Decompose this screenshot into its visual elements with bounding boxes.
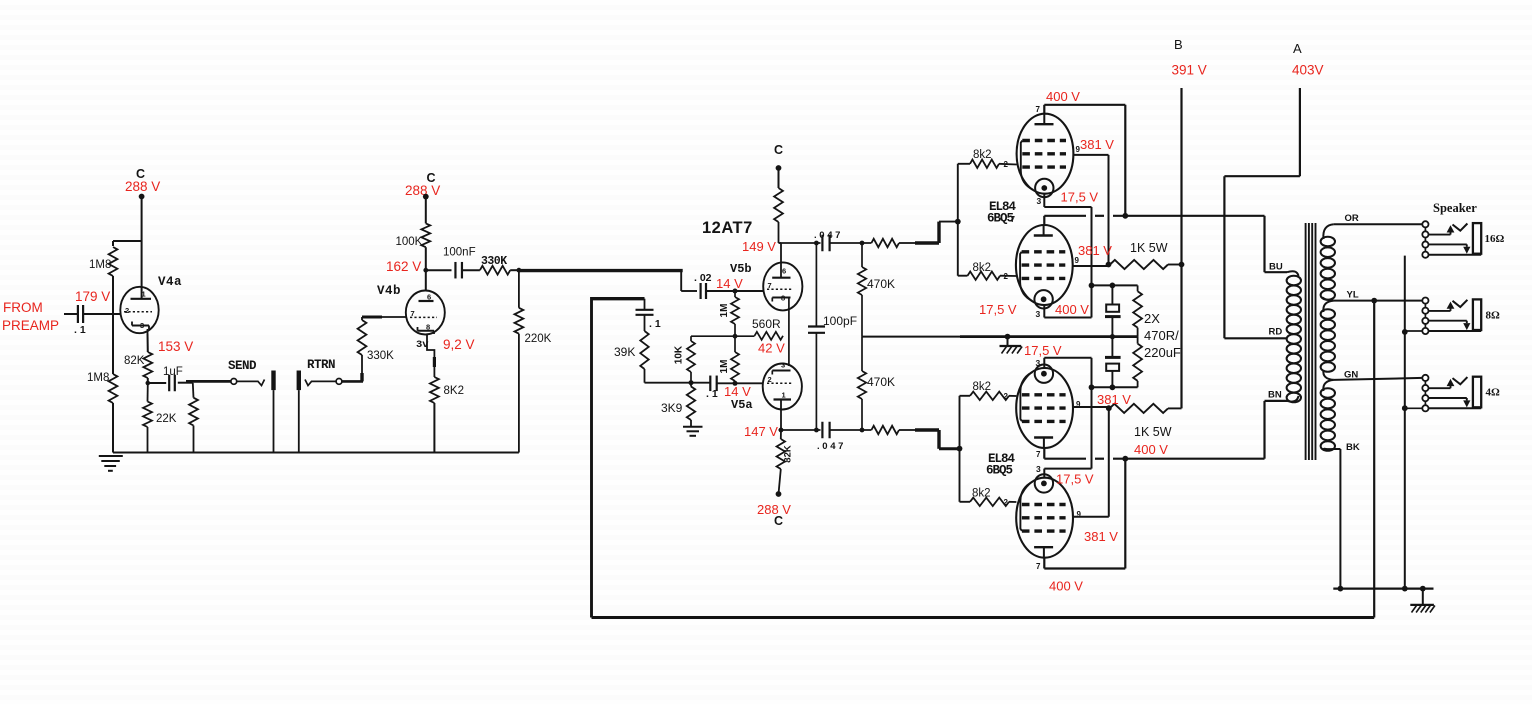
resistor 8k2 V2 (968, 262, 1017, 280)
resistor 39K feedback (614, 331, 649, 383)
svg-text:100K: 100K (396, 236, 423, 248)
capacitor 1uF (163, 366, 183, 391)
wire RTRN up to 330K (360, 355, 363, 381)
resistor 470K upper grid leak (858, 243, 895, 337)
svg-text:1M: 1M (719, 360, 730, 374)
capacitor .1 input coupling (74, 305, 86, 336)
svg-text:3: 3 (1036, 358, 1041, 368)
supply C 288V for V4b (405, 171, 440, 200)
label V4b (377, 284, 401, 298)
svg-text:100pF: 100pF (823, 314, 857, 328)
wire ground bus middle (862, 334, 1138, 340)
supply C 288V for V4a (125, 167, 160, 199)
svg-text:1uF: 1uF (163, 366, 183, 378)
wire 100K to plate node (423, 247, 428, 291)
svg-text:3K9: 3K9 (661, 401, 683, 415)
label 3v pin (416, 339, 429, 351)
red label 400 V V1 plate (1046, 89, 1080, 104)
pentode EL84 V3 (flipped) (1016, 365, 1073, 449)
red label 147 V (744, 424, 778, 439)
svg-text:6BQ5: 6BQ5 (987, 212, 1014, 226)
svg-text:. 0 4 7: . 0 4 7 (817, 441, 843, 452)
resistor 330K grid V4b (358, 317, 395, 362)
svg-text:3: 3 (1036, 464, 1041, 474)
wire lower .047 to grid stopper (830, 428, 872, 433)
resistor V5b plate load (774, 188, 783, 243)
wire .047 to grid stopper (830, 241, 872, 246)
svg-text:8K2: 8K2 (444, 385, 464, 397)
red label 381 V V3 screen (1097, 392, 1131, 407)
svg-text:470K: 470K (867, 375, 895, 389)
resistor 3K9 (661, 383, 695, 427)
resistor 82K cathode V4a (124, 352, 152, 378)
capacitor .047 lower (817, 422, 843, 452)
svg-text:1: 1 (782, 391, 786, 400)
svg-text:470R/: 470R/ (1144, 328, 1179, 343)
wire V4a cathode (147, 334, 149, 353)
svg-text:7: 7 (1036, 450, 1041, 459)
svg-text:8Ω: 8Ω (1486, 310, 1501, 322)
label 12AT7 (702, 219, 753, 237)
red label 179 V (75, 289, 110, 304)
svg-text:6: 6 (427, 293, 431, 302)
wire screens upper pair (1073, 155, 1112, 268)
wire V5b cathode to 560R to V5a cathode (788, 298, 790, 367)
wire 82K to node (146, 378, 151, 385)
svg-text:381 V: 381 V (1080, 137, 1114, 152)
ground symbol right (1410, 589, 1435, 613)
wire speaker common (1402, 256, 1408, 592)
svg-text:391 V: 391 V (1172, 63, 1207, 78)
red label 17,5 V V4 cathode (1056, 472, 1094, 487)
svg-text:PREAMP: PREAMP (2, 318, 59, 333)
svg-text:381 V: 381 V (1097, 392, 1131, 407)
resistor 82K tail V5a (777, 430, 794, 494)
svg-text:V4a: V4a (158, 275, 182, 289)
svg-text:400 V: 400 V (1049, 579, 1083, 594)
resistor 100K plate V4b (396, 223, 431, 248)
label YL (1347, 290, 1359, 301)
svg-text:6: 6 (782, 267, 786, 276)
jack speaker 16 ohm (1422, 221, 1481, 258)
svg-text:8k2: 8k2 (973, 381, 992, 393)
resistor grid stopper lower (871, 426, 915, 434)
svg-text:. 1: . 1 (706, 388, 718, 400)
capacitor .1 at V5a grid (706, 376, 718, 400)
red label 14 V (V5a grid) (724, 384, 751, 399)
svg-text:BK: BK (1346, 442, 1360, 453)
label V4a (158, 275, 182, 289)
wire node to 1uF (148, 382, 166, 384)
resistor 8k2 V1 (970, 149, 1017, 168)
red label 17,5 V V1 cathode (1061, 190, 1099, 205)
wire V4a plate supply (141, 197, 143, 289)
svg-text:7: 7 (1036, 105, 1041, 114)
svg-text:C: C (774, 514, 783, 528)
label Speaker (1433, 201, 1477, 215)
jack RTRN (297, 371, 363, 453)
svg-text:288 V: 288 V (125, 179, 160, 194)
svg-text:8: 8 (426, 323, 430, 332)
supply C 288V bottom (757, 491, 791, 528)
svg-text:BN: BN (1268, 390, 1282, 401)
svg-text:14 V: 14 V (716, 276, 743, 291)
resistor 8K2 cathode V4b (430, 377, 464, 403)
resistor 470R lower (1133, 337, 1142, 388)
wire 330K to junction (510, 268, 521, 273)
red label 17,5 V V3 cathode (1024, 343, 1062, 358)
red label 17,5 V V2 cathode (979, 302, 1017, 317)
red label 162 V (386, 259, 421, 274)
label B (1174, 37, 1183, 52)
supply C at V5b plate resistor (774, 143, 783, 171)
red label FROM PREAMP (input) (2, 300, 59, 333)
triode V4b (406, 291, 445, 335)
grid bus upper pair (958, 164, 970, 276)
svg-text:153 V: 153 V (158, 339, 193, 354)
ground rail left section (113, 452, 519, 454)
wire lower plate line to BN (1044, 401, 1287, 462)
svg-text:. 0 4 7: . 0 4 7 (814, 230, 840, 241)
red label 391 V (1172, 63, 1207, 78)
svg-text:2: 2 (768, 375, 772, 384)
svg-text:V4b: V4b (377, 284, 401, 298)
svg-text:V5a: V5a (731, 398, 753, 412)
transformer primary winding (1287, 271, 1301, 402)
wire upper cathode RC bus (1092, 283, 1138, 289)
wire 8K2 to rail (433, 403, 435, 453)
wire plate node to 100nF (426, 269, 452, 271)
label BU (1269, 262, 1283, 273)
wire junction to .1 cap (691, 382, 710, 384)
svg-text:FROM: FROM (3, 300, 43, 315)
svg-text:1K 5W: 1K 5W (1130, 241, 1168, 255)
ground symbol left rail (99, 456, 123, 471)
wire BK tap down to ground bus (1338, 449, 1344, 591)
svg-text:179 V: 179 V (75, 289, 110, 304)
svg-text:14 V: 14 V (724, 384, 751, 399)
svg-text:8k2: 8k2 (973, 262, 992, 274)
svg-text:3: 3 (781, 361, 785, 370)
wire A line 403V (1224, 88, 1300, 338)
wire screens lower pair (1073, 405, 1111, 516)
wire 1M8 divider bus (112, 241, 114, 453)
label SEND (228, 359, 257, 373)
pin labels EL84 V2 (1004, 215, 1080, 319)
wire feedback loop (592, 297, 1375, 618)
svg-text:147 V: 147 V (744, 424, 778, 439)
svg-text:SEND: SEND (228, 359, 257, 373)
svg-text:39K: 39K (614, 345, 635, 359)
red label 400 V V4 plate (1049, 579, 1083, 594)
resistor 560R (752, 317, 783, 340)
svg-text:330K: 330K (367, 350, 394, 362)
svg-text:1M8: 1M8 (87, 372, 109, 384)
resistor grid stopper upper (871, 239, 915, 247)
svg-text:22K: 22K (156, 413, 177, 425)
svg-text:42 V: 42 V (758, 341, 785, 356)
resistor 8k2 V4 (970, 488, 1016, 507)
pin labels EL84 V3 (1004, 358, 1082, 459)
resistor after 1uF to ground (189, 383, 198, 453)
capacitor .047 upper (814, 230, 840, 251)
wire input cap to V4a grid (84, 313, 121, 315)
wire 39K to junction (645, 380, 694, 385)
wire upper plate line to BU (1044, 216, 1287, 272)
label V5a (731, 398, 753, 412)
resistor 470K lower grid leak (858, 337, 895, 430)
wire thick drive to upper EL84 grids (915, 219, 961, 243)
transformer core (1306, 223, 1316, 460)
red label 149 V (742, 239, 776, 254)
svg-text:17,5 V: 17,5 V (1024, 343, 1062, 358)
node wire 42V rail (691, 334, 755, 339)
wire cathodes lower pair (1044, 358, 1091, 478)
svg-text:8: 8 (781, 294, 785, 303)
svg-text:. 02: . 02 (694, 272, 712, 284)
svg-text:400 V: 400 V (1055, 302, 1089, 317)
capacitor .02 (694, 272, 712, 299)
red label 153 V (158, 339, 193, 354)
svg-text:403V: 403V (1292, 63, 1324, 78)
wire GN tap to 4ohm jack (1334, 378, 1423, 380)
red label 400 V V2 plate (1055, 302, 1089, 317)
wire coupling down to .02 (681, 271, 697, 291)
svg-text:3: 3 (140, 321, 144, 330)
svg-text:B: B (1174, 37, 1183, 52)
svg-text:400 V: 400 V (1134, 442, 1168, 457)
svg-text:1: 1 (142, 290, 146, 299)
svg-text:381 V: 381 V (1084, 529, 1118, 544)
capacitor 220uF lower (1105, 337, 1121, 388)
svg-text:12AT7: 12AT7 (702, 219, 753, 237)
svg-text:2: 2 (125, 306, 129, 315)
red label 381 V V1 screen (1080, 137, 1114, 152)
resistor 1M8 upper (89, 247, 117, 276)
svg-text:A: A (1293, 41, 1302, 56)
capacitor .1 feedback (636, 299, 661, 331)
red label 400 V near lower 1K5W (1134, 442, 1168, 457)
wire V4b cathode to 8K2 (427, 334, 434, 377)
svg-text:C: C (774, 143, 783, 157)
label 2X 470R 220uF (1144, 311, 1181, 360)
svg-text:470K: 470K (867, 277, 895, 291)
wire 1uF to SEND jack (178, 381, 231, 382)
label 4 ohm (1486, 387, 1501, 399)
resistor 10K (674, 336, 696, 383)
ground symbol 3K9 (683, 427, 703, 436)
wire V5b plate line 149V (779, 241, 821, 263)
svg-text:220uF: 220uF (1144, 345, 1181, 360)
label 16 ohm (1485, 233, 1505, 245)
wire 1M8 tap to plate supply (113, 240, 142, 242)
svg-text:82K: 82K (124, 355, 145, 367)
wire right ground bus (1333, 586, 1433, 592)
wire V4 plate up to plate line (1044, 459, 1125, 569)
label GN (1344, 370, 1358, 381)
svg-text:. 1: . 1 (649, 318, 661, 330)
pentode EL84 V2 (1016, 225, 1073, 308)
resistor 1M lower (719, 336, 739, 383)
svg-text:. 1: . 1 (74, 324, 86, 336)
svg-text:17,5 V: 17,5 V (1056, 472, 1094, 487)
label A (1293, 41, 1302, 56)
triode V4a (120, 287, 158, 334)
wire V5a plate line 147V (779, 410, 821, 433)
triode V5b (763, 262, 802, 310)
red label 14 V (V5b grid) (716, 276, 743, 291)
svg-text:7: 7 (1036, 562, 1041, 571)
capacitor 100nF (443, 247, 476, 279)
svg-text:1K 5W: 1K 5W (1134, 425, 1172, 439)
svg-text:8k2: 8k2 (972, 488, 991, 500)
svg-text:7: 7 (768, 281, 772, 290)
red label 381 V V2 screen (1078, 243, 1112, 258)
resistor 8k2 V3 (970, 381, 1016, 400)
svg-text:400 V: 400 V (1046, 89, 1080, 104)
jack speaker 8 ohm (1405, 298, 1481, 335)
wire .1 to V5a grid (717, 381, 763, 386)
svg-text:100nF: 100nF (443, 247, 476, 259)
svg-text:16Ω: 16Ω (1485, 233, 1505, 245)
wire .02 to V5b grid (707, 289, 764, 294)
resistor 470R upper (1133, 285, 1142, 336)
wire YL tap to 8ohm jack (1334, 298, 1423, 304)
svg-text:381 V: 381 V (1078, 243, 1112, 258)
label EL84 6BQ5 lower (986, 452, 1016, 478)
wire B line 391V (1180, 88, 1182, 408)
resistor 1K 5W lower (1110, 404, 1182, 439)
wire supply to 100K (425, 197, 427, 224)
svg-text:6BQ5: 6BQ5 (986, 464, 1013, 478)
resistor 330K coupling (480, 255, 510, 275)
svg-text:OR: OR (1345, 213, 1359, 224)
svg-text:330K: 330K (481, 255, 507, 268)
pentode EL84 V1 (top) (1017, 114, 1074, 198)
wire thick coupling to phase splitter (519, 269, 683, 272)
svg-text:17,5 V: 17,5 V (979, 302, 1017, 317)
svg-text:162 V: 162 V (386, 259, 421, 274)
resistor 1M8 lower (87, 372, 117, 403)
svg-text:220K: 220K (525, 333, 552, 345)
wire thick drive to lower EL84 grids (915, 430, 962, 452)
pentode EL84 V4 (flipped) (1016, 474, 1073, 558)
resistor 220K (515, 270, 552, 452)
svg-text:288 V: 288 V (405, 183, 440, 198)
jack SEND (231, 371, 276, 453)
red label 381 V V4 screen (1084, 529, 1118, 544)
svg-text:8k2: 8k2 (973, 149, 992, 161)
label EL84 6BQ5 upper (987, 200, 1017, 226)
svg-text:4Ω: 4Ω (1486, 387, 1501, 399)
label OR (1345, 213, 1359, 224)
label V5b (730, 262, 752, 276)
label 560R node red 42 V (758, 341, 785, 356)
label 8 ohm (1486, 310, 1501, 322)
svg-text:2X: 2X (1144, 311, 1160, 326)
jack speaker 4 ohm (1405, 375, 1481, 412)
wire C to plate resistor V5b (778, 168, 780, 188)
svg-text:9,2 V: 9,2 V (443, 337, 475, 352)
red label 403V (1292, 63, 1324, 78)
svg-text:1M: 1M (719, 304, 730, 318)
transformer secondary winding (1321, 224, 1341, 451)
svg-text:1M8: 1M8 (89, 259, 111, 271)
label BK (1346, 442, 1360, 453)
wire cathodes upper pair (1044, 193, 1094, 318)
wire OR tap to 16ohm jack (1334, 223, 1423, 225)
resistor 1M upper (719, 291, 739, 336)
svg-text:7: 7 (411, 309, 415, 318)
svg-text:RTRN: RTRN (307, 358, 335, 372)
pin labels EL84 V4 (1004, 464, 1082, 571)
wire lower cathode RC bus (1089, 384, 1138, 390)
svg-text:17,5 V: 17,5 V (1061, 190, 1099, 205)
svg-text:560R: 560R (752, 317, 781, 331)
svg-text:YL: YL (1347, 290, 1359, 301)
svg-text:RD: RD (1269, 327, 1283, 338)
red label 9,2 V (443, 337, 475, 352)
svg-text:Speaker: Speaker (1433, 201, 1477, 215)
wire 330K to V4b grid (362, 316, 407, 319)
wire input from preamp (64, 313, 78, 315)
svg-text:V5b: V5b (730, 262, 752, 276)
label RTRN (307, 358, 335, 372)
svg-text:3: 3 (1036, 309, 1041, 319)
resistor 1K 5W upper (1110, 241, 1184, 269)
svg-text:149 V: 149 V (742, 239, 776, 254)
capacitor 100pF across plates (808, 243, 857, 430)
label BN (1268, 390, 1282, 401)
capacitor 220uF upper (1105, 285, 1121, 336)
triode V5a (763, 361, 802, 410)
svg-text:3: 3 (1037, 196, 1042, 206)
resistor 22K (143, 383, 177, 453)
svg-text:BU: BU (1269, 262, 1283, 273)
wire V1 plate to B+ line (1044, 105, 1128, 219)
grid bus lower pair (960, 396, 971, 502)
wire 100nF to 330K (462, 269, 480, 271)
svg-text:82K: 82K (783, 445, 794, 463)
label RD (1269, 327, 1283, 338)
ground symbol middle bus (1000, 337, 1023, 354)
svg-text:10K: 10K (674, 345, 685, 364)
pin labels EL84 V1 (1004, 105, 1081, 206)
